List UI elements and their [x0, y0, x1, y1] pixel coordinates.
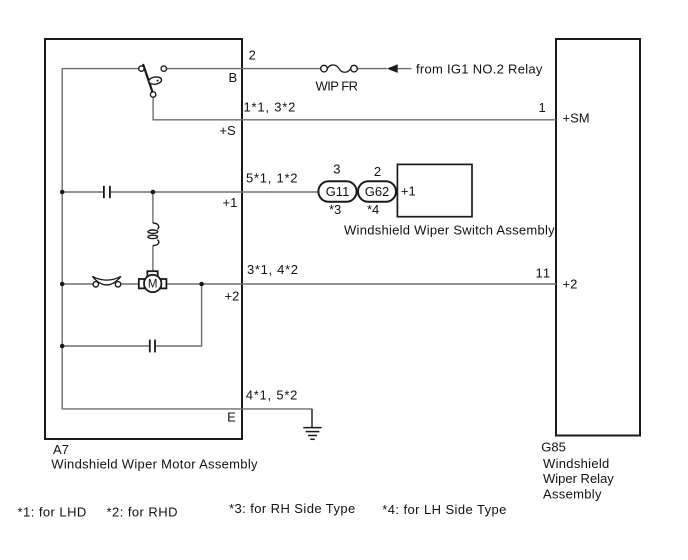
park switch S1 left contact	[139, 66, 144, 71]
svg-text:*3: for RH Side Type: *3: for RH Side Type	[229, 501, 356, 516]
ground symbol bars	[303, 428, 321, 440]
motor M right brush	[161, 279, 167, 288]
arrow from IG1 NO.2 Relay	[387, 64, 398, 73]
wire motor right brush to +2 terminal and G85	[166, 283, 556, 285]
connector block A7 Windshield Wiper Motor Assembly box	[45, 39, 242, 439]
svg-text:2: 2	[249, 48, 256, 63]
park switch S1 cam dot	[157, 80, 159, 82]
fuse WIP FR left terminal	[321, 65, 328, 72]
svg-text:Wiper Relay: Wiper Relay	[543, 471, 614, 486]
svg-text:11: 11	[536, 265, 552, 280]
wire +1 left segment to capacitor C1	[62, 191, 103, 193]
junction node +2 at capacitor branch	[199, 282, 204, 287]
svg-text:*3: *3	[329, 202, 341, 217]
svg-text:*4: for LH Side Type: *4: for LH Side Type	[382, 502, 507, 517]
wire from +1 node down to coil L1	[152, 192, 154, 223]
connector block Windshield Wiper Switch Assembly box	[397, 164, 472, 216]
fuse WIP FR element	[327, 65, 350, 72]
wire cam contact to motor left brush	[121, 283, 139, 285]
connector block G85 Windshield Wiper Relay Assembly box	[556, 39, 640, 436]
svg-text:1*1, 3*2: 1*1, 3*2	[244, 99, 297, 114]
wire +1 from capacitor C1 to connector G11	[111, 191, 319, 193]
park switch S1 cam ellipse	[148, 76, 162, 85]
svg-text:E: E	[227, 410, 236, 425]
wire branch from +2 node down to capacitor C2	[155, 284, 201, 346]
motor M top brush	[147, 271, 157, 276]
wire fuse WIP FR to arrow	[357, 68, 387, 70]
svg-text:*1: for LHD: *1: for LHD	[18, 504, 87, 519]
junction node +2 on left bus	[60, 282, 65, 287]
capacitor C2 right plate	[154, 340, 156, 353]
wire capacitor C2 to left bus	[62, 345, 149, 347]
svg-text:Windshield Wiper Switch Assemb: Windshield Wiper Switch Assembly	[344, 222, 555, 237]
junction node +1 on left bus	[60, 190, 65, 195]
motor M left brush	[139, 279, 145, 288]
motor M body	[144, 275, 161, 292]
wire +S to +SM	[153, 97, 556, 119]
coil L1	[148, 223, 159, 246]
capacitor C1 left plate	[103, 186, 105, 198]
park switch S1 right contact	[161, 66, 166, 71]
svg-text:3*1, 4*2: 3*1, 4*2	[247, 262, 299, 277]
wire from park switch left contact to left bus and down to E, then to ground stem	[62, 69, 312, 409]
svg-text:1: 1	[539, 100, 546, 115]
connector G11 stadium	[318, 181, 356, 202]
svg-text:M: M	[148, 279, 158, 291]
svg-text:3: 3	[333, 161, 340, 176]
svg-text:+2: +2	[563, 277, 578, 292]
wire arrow tail to text	[398, 68, 412, 70]
svg-text:5*1, 1*2: 5*1, 1*2	[246, 170, 298, 185]
svg-text:from IG1 NO.2 Relay: from IG1 NO.2 Relay	[416, 61, 543, 76]
svg-text:+1: +1	[223, 195, 238, 210]
svg-text:+2: +2	[225, 288, 240, 303]
ground symbol stem	[311, 409, 313, 427]
svg-text:G11: G11	[326, 184, 350, 199]
svg-text:WIP FR: WIP FR	[316, 79, 358, 94]
connector G62 stadium	[358, 181, 396, 202]
svg-text:B: B	[229, 70, 238, 85]
wire from coil L1 to motor M	[152, 246, 154, 272]
svg-text:A7: A7	[53, 442, 69, 457]
cam contact crescent plate	[92, 276, 121, 285]
park switch S1 blade	[143, 65, 152, 92]
svg-text:*4: *4	[367, 202, 379, 217]
svg-text:+S: +S	[219, 123, 236, 138]
cam contact left terminal	[93, 282, 98, 287]
cam contact right terminal	[115, 282, 120, 287]
svg-text:G62: G62	[365, 184, 390, 199]
fuse WIP FR right terminal	[351, 65, 358, 72]
junction node capacitor wire on left bus	[60, 344, 65, 349]
svg-text:4*1, 5*2: 4*1, 5*2	[246, 388, 299, 403]
wire B terminal to fuse WIP FR	[167, 68, 321, 70]
svg-text:*2: for RHD: *2: for RHD	[107, 504, 178, 519]
svg-text:Assembly: Assembly	[543, 487, 602, 502]
svg-text:G85: G85	[541, 440, 566, 455]
park switch S1 bottom contact	[150, 92, 155, 97]
svg-text:Windshield: Windshield	[543, 456, 610, 471]
svg-text:+1: +1	[401, 184, 416, 199]
svg-text:2: 2	[374, 164, 381, 179]
capacitor C1 right plate	[109, 186, 111, 198]
svg-text:+SM: +SM	[563, 111, 590, 126]
svg-text:Windshield Wiper Motor Assembl: Windshield Wiper Motor Assembly	[51, 456, 258, 471]
junction node +1 at coil branch	[151, 190, 156, 195]
wire +2 left segment to cam contact	[62, 283, 93, 285]
capacitor C2 left plate	[149, 340, 151, 353]
